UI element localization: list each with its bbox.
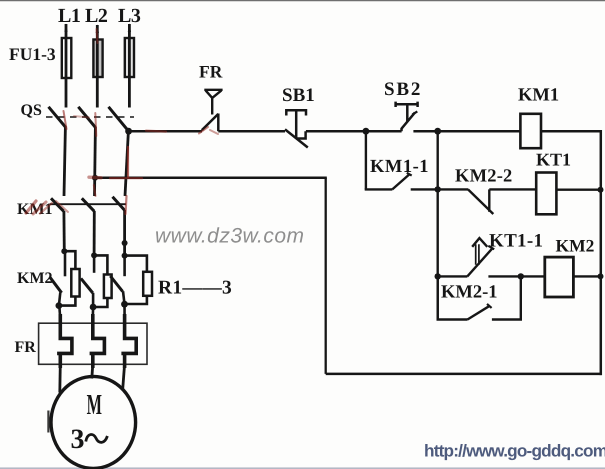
motor wave symbol (86, 434, 108, 442)
FR contact blade (202, 114, 219, 130)
switch QS blade 2 (78, 107, 95, 128)
KM1 linkage (50, 203, 126, 205)
contact KM2-2 stop bar (488, 189, 490, 211)
FR heater 2 (90, 314, 105, 368)
resistor R1c (143, 272, 152, 296)
node L2-control tap (92, 175, 98, 181)
wire col2 QS to KM1 (93, 127, 97, 196)
wire col1 KM1 to node (63, 211, 66, 251)
svg-text:www.dz3w.com: www.dz3w.com (155, 225, 305, 248)
svg-text:KT1: KT1 (536, 150, 571, 170)
svg-text:FU1-3: FU1-3 (9, 44, 56, 64)
wire motor lead 1 (58, 364, 61, 393)
QS linkage dashed (46, 116, 134, 118)
wire node to KM2 coil (521, 275, 545, 277)
button SB2 blade (401, 113, 415, 129)
svg-text:L1: L1 (58, 5, 80, 27)
coil KT1 (536, 173, 556, 215)
red mark crossing (110, 177, 142, 179)
wire col3 KM1 to node (123, 210, 126, 256)
red mark QS dashes (74, 116, 89, 118)
contactor KM1 blade 1 (51, 198, 64, 211)
motor edge artifact (47, 411, 49, 433)
mid rail (437, 131, 439, 319)
feeder tip L1 (64, 23, 67, 32)
red mark FR blade b (210, 130, 218, 134)
wire resistor branch 2 (94, 255, 107, 275)
wire y189 to KM2-2 (438, 188, 469, 190)
wire KT1 to rail (556, 188, 600, 190)
contact KT1-1 blade (467, 248, 492, 276)
svg-text:M: M (87, 389, 102, 421)
contactor KM2 blade 1 (64, 251, 67, 276)
wire resistor branch 1 (64, 251, 75, 270)
red mark QS col2 (95, 113, 96, 136)
contact KM1-1 branch left (365, 131, 367, 189)
contactor KM2 blade 3 (123, 256, 126, 277)
button SB2 cap (396, 102, 418, 122)
wire control y131 left (129, 130, 202, 133)
wire node to SB2 (366, 130, 402, 133)
wire L3 feeder (128, 24, 131, 108)
node col2 rejoin (90, 304, 97, 311)
node col3 upper (122, 240, 128, 246)
red mark node95 (89, 175, 101, 179)
wire KM2-2 to KT1 (489, 188, 536, 190)
button SB1 cap (286, 110, 306, 138)
node col3 split (122, 253, 128, 259)
svg-text:KM2: KM2 (556, 236, 595, 256)
svg-text:KM2: KM2 (17, 270, 53, 287)
wire col1 to FR (58, 306, 62, 318)
red scribble KM1 c (40, 203, 52, 214)
node col1 split (61, 248, 67, 254)
contact KM2-2 blade (468, 189, 493, 214)
svg-text:http://www.go-gddq.com: http://www.go-gddq.com (424, 441, 605, 461)
wire col2 KM1 to node (93, 211, 96, 256)
wire resistor branch 3 (125, 256, 147, 273)
fuse FU3 (125, 38, 134, 77)
contact KM2-1 branch (438, 276, 468, 319)
fuse FU2 (93, 40, 102, 78)
contactor KM1 blade 3 (113, 197, 125, 211)
coil KM1 (520, 114, 541, 148)
node rail KM2 (598, 273, 604, 279)
wire KM2-1 right (492, 276, 521, 319)
relay FR box (39, 323, 147, 364)
svg-text:KM1: KM1 (518, 86, 559, 106)
wire KM1 coil to rail (541, 130, 602, 133)
bottom wire (326, 373, 602, 376)
svg-text:L2: L2 (85, 5, 108, 27)
node KM2 branch (518, 273, 524, 279)
wire L2 to left rail (95, 176, 327, 179)
button SB1 blade (285, 129, 308, 147)
feeder tip L2 (96, 24, 99, 33)
red scribble KM1 b (33, 202, 46, 214)
node KM1 branch (434, 128, 441, 135)
switch QS blade 3 (109, 107, 129, 131)
FR heater 1 (57, 314, 72, 368)
node KT1-1 left (435, 273, 441, 279)
left rail (325, 178, 327, 374)
svg-text:R1——3: R1——3 (158, 278, 232, 299)
red mark QS col1 (64, 111, 67, 129)
wire col2 to FR (92, 307, 95, 318)
node L3-control tap (125, 128, 132, 135)
fuse FU1 (62, 38, 72, 78)
wire SB2 to node (413, 130, 437, 133)
red mark KM1 blade1 (56, 201, 68, 212)
node rail KT1 (598, 187, 604, 193)
red mark col3 lower (126, 196, 127, 214)
FR contact head (204, 90, 222, 115)
right rail (600, 130, 603, 375)
FR heater 3 (121, 314, 136, 368)
switch QS blade 1 (49, 107, 66, 128)
motor M circle (51, 376, 136, 468)
wire resistor branch 1 lower (59, 297, 76, 306)
contact KM2-1 blade (468, 306, 490, 320)
node col1 rejoin (56, 302, 63, 309)
svg-text:3: 3 (71, 424, 85, 455)
node SB2 left (363, 128, 370, 135)
svg-text:SB2: SB2 (384, 79, 422, 100)
svg-text:FR: FR (199, 62, 223, 82)
svg-text:FR: FR (15, 339, 37, 356)
edge line top (0, 0, 605, 2)
wire L2 feeder (96, 25, 99, 108)
contactor KM2 blade 2 (93, 255, 96, 272)
red mark col2 below (94, 185, 96, 196)
edge line bottom (0, 467, 605, 469)
red mark fuse2 (97, 29, 98, 43)
svg-text:KM2-2: KM2-2 (455, 167, 513, 187)
svg-text:KM1-1: KM1-1 (370, 157, 429, 177)
wire control SB1 to node (306, 130, 366, 133)
wire control FR to SB1 (218, 130, 285, 133)
wire KM2 coil to rail (573, 275, 600, 277)
wire resistor branch 2 lower (93, 298, 107, 307)
SB2 terminal tick (400, 128, 403, 131)
wire motor lead 2 (92, 364, 93, 379)
svg-text:KT1-1: KT1-1 (489, 230, 543, 251)
svg-text:QS: QS (21, 102, 42, 119)
red mark FR blade a (199, 127, 208, 134)
wire motor lead 3 (123, 364, 125, 391)
contactor KM1 blade 2 (82, 198, 95, 211)
svg-text:L3: L3 (118, 5, 141, 27)
wire KM1-1 right (411, 188, 438, 190)
red scribble KM1 a (26, 201, 36, 213)
FR contact stub (217, 114, 220, 132)
node col3 rejoin (121, 301, 128, 308)
wire KT1-1 right (488, 275, 521, 277)
wire col3 QS to KM1 (125, 131, 128, 196)
svg-text:SB1: SB1 (282, 85, 315, 106)
feeder tip L3 (128, 23, 131, 32)
coil KM2 (545, 257, 574, 297)
wire resistor branch 3 lower (125, 296, 147, 304)
svg-text:KM2-1: KM2-1 (441, 283, 498, 303)
wire L1 feeder (65, 24, 68, 108)
contact KM1-1 blade (392, 174, 410, 190)
wire node to KM1 coil (438, 130, 521, 133)
KT1-1 delay arrow (476, 244, 479, 264)
resistor R1b (104, 275, 112, 299)
red mark wire131 (146, 131, 166, 132)
wire col3 to FR (123, 304, 126, 318)
resistor R1a (71, 269, 79, 297)
wire to KT1-1 (438, 275, 468, 277)
node KM1-1 join (435, 186, 441, 192)
red mark col3 vertical (127, 147, 129, 177)
wire col1 QS to KM1 (64, 127, 65, 196)
node col2 split (91, 252, 97, 258)
